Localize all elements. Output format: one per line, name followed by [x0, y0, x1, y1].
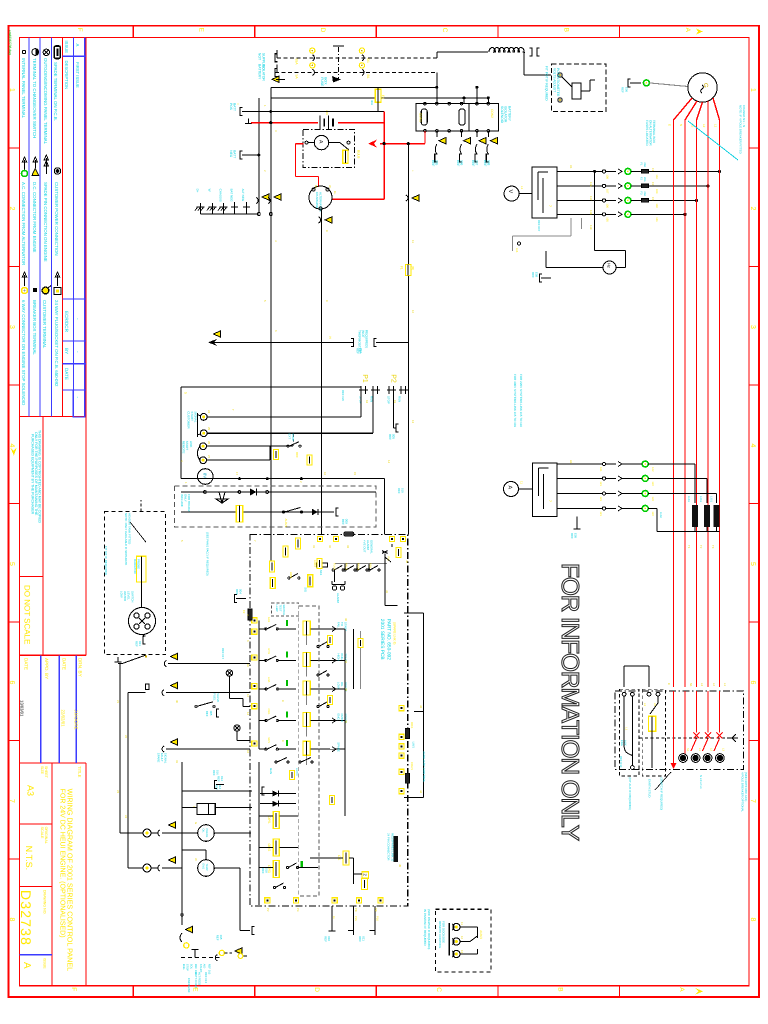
svg-text:T: T — [231, 409, 235, 411]
svg-text:OVER: OVER — [340, 714, 344, 722]
svg-text:101: 101 — [655, 217, 658, 222]
svg-text:T2: T2 — [699, 545, 703, 549]
breaker aux sub-box 1 internals — [622, 692, 626, 696]
svg-text:(SEE NOTE REF AC1): (SEE NOTE REF AC1) — [744, 772, 748, 801]
svg-text:REF: REF — [217, 776, 221, 782]
svg-text:7: 7 — [253, 540, 257, 542]
relay CON1 coil — [421, 109, 427, 125]
start aid dashed wire — [181, 957, 220, 959]
svg-text:24: 24 — [124, 815, 128, 819]
svg-text:FUEL: FUEL — [212, 693, 216, 701]
P1 pins — [359, 389, 368, 391]
ammeter circle — [504, 482, 519, 497]
svg-text:5: 5 — [263, 300, 267, 302]
svg-text:CUSTOMER POWER CONNECTION: CUSTOMER POWER CONNECTION — [54, 182, 59, 256]
svg-text:ON ALTERNATOR: ON ALTERNATOR — [649, 120, 653, 146]
battery isolator line 1 — [277, 57, 437, 59]
symbol terminal to changeover switch — [32, 49, 39, 56]
gray sense wire — [359, 631, 361, 672]
P1 wires down — [360, 394, 362, 417]
svg-text:A: A — [678, 987, 685, 992]
svg-text:D.C. CONNECTOR FROM ENGINE: D.C. CONNECTOR FROM ENGINE — [32, 182, 37, 252]
svg-text:F: F — [76, 28, 83, 32]
remote control terminals — [453, 923, 460, 930]
svg-text:33: 33 — [346, 545, 350, 549]
svg-text:REMOTE: REMOTE — [182, 441, 186, 454]
gray wire extension pcb — [359, 660, 361, 689]
thermostart supply wire — [213, 341, 354, 343]
svg-text:P2: P2 — [266, 908, 270, 912]
svg-text:CUSTOMER: CUSTOMER — [186, 411, 190, 429]
breaker phase studs — [680, 755, 686, 761]
svg-text:32: 32 — [328, 545, 332, 549]
svg-text:WIRING DIAGRAM OF 2001 SERIES: WIRING DIAGRAM OF 2001 SERIES CONTROL PA… — [65, 789, 74, 972]
svg-text:P16: P16 — [376, 916, 379, 921]
svg-text:TERMINAL BOX: TERMINAL BOX — [652, 120, 656, 143]
svg-text:L2: L2 — [702, 124, 706, 128]
svg-text:HT/1: HT/1 — [267, 648, 270, 654]
remote terminal common bar — [448, 923, 450, 956]
svg-text:L2: L2 — [710, 748, 713, 751]
svg-text:ENERGISE: ENERGISE — [187, 978, 191, 993]
svg-text:SWITCH: SWITCH — [282, 605, 285, 616]
svg-text:19: 19 — [393, 400, 397, 404]
svg-text:EXT: EXT — [287, 434, 291, 440]
voltmeter to selector wire — [519, 193, 532, 195]
svg-text:REF: REF — [531, 272, 535, 278]
svg-text:START: START — [344, 622, 348, 631]
sub-box 2 internals — [647, 692, 651, 696]
svg-text:D: D — [313, 987, 320, 992]
svg-text:(SEE PAN/PAC IF REQUIRED): (SEE PAN/PAC IF REQUIRED) — [427, 909, 431, 949]
isolator link dash-dot vertical — [337, 47, 339, 80]
red arrow to charge box — [368, 140, 377, 148]
PCB bottom edge pads — [265, 898, 270, 903]
charge box switch blade — [340, 143, 349, 150]
svg-text:004: 004 — [239, 589, 243, 594]
ammeter rows to CT drops — [648, 463, 695, 465]
svg-text:REF: REF — [205, 711, 209, 717]
svg-text:11: 11 — [411, 240, 415, 243]
fault row ENG. — [259, 720, 266, 722]
svg-text:ECR/DCR: ECR/DCR — [64, 311, 69, 333]
coil stubs below PCB row coils — [306, 635, 308, 645]
svg-text:E: E — [667, 683, 671, 685]
svg-text:117: 117 — [589, 196, 593, 201]
svg-text:E: E — [192, 987, 199, 992]
svg-text:OIL: OIL — [202, 829, 205, 834]
svg-text:START: START — [185, 441, 189, 451]
svg-text:Hz: Hz — [607, 263, 612, 268]
svg-text:N L3 L2 L1: N L3 L2 L1 — [699, 775, 703, 789]
svg-text:REF: REF — [215, 935, 219, 941]
svg-text:SWITCH: SWITCH — [130, 591, 134, 602]
aux box top row wire — [181, 491, 376, 493]
svg-text:SOLENOID: SOLENOID — [500, 106, 504, 124]
svg-text:POS: POS — [229, 103, 233, 110]
svg-text:D1: D1 — [366, 59, 370, 63]
wire down to oil sender — [119, 664, 121, 833]
svg-text:CON2: CON2 — [490, 109, 494, 118]
svg-text:11: 11 — [332, 916, 335, 919]
svg-text:18: 18 — [365, 400, 369, 404]
spade connectors below relays — [439, 138, 446, 144]
switch bottom terminal — [143, 635, 145, 637]
middle vertical wire pcb — [353, 629, 355, 689]
svg-text:PAN/1: PAN/1 — [356, 563, 359, 571]
svg-text:9: 9 — [281, 740, 285, 742]
svg-text:ALT FEED: ALT FEED — [198, 972, 202, 985]
svg-text:REF 013: REF 013 — [204, 972, 208, 983]
svg-text:L3: L3 — [700, 683, 704, 687]
man auto switches — [275, 761, 277, 763]
svg-text:+VE OUT: +VE OUT — [362, 540, 366, 553]
svg-text:BATT: BATT — [233, 103, 237, 111]
svg-text:HEADER TANK FITTED: HEADER TANK FITTED — [128, 513, 132, 544]
starter coil inductor — [489, 47, 524, 52]
fault row LOW — [259, 688, 266, 690]
breaker dash-dot box — [615, 691, 743, 769]
svg-text:P1: P1 — [361, 374, 368, 383]
svg-text:008: 008 — [487, 160, 491, 166]
terminal 2 wire — [207, 432, 373, 434]
svg-text:A: A — [21, 962, 32, 969]
spade pair on long vertical — [412, 195, 419, 201]
battery pos red down to charge junction — [383, 112, 385, 200]
svg-text:L2: L2 — [712, 683, 716, 687]
svg-text:11: 11 — [460, 922, 464, 925]
svg-text:010: 010 — [327, 936, 331, 941]
svg-text:ENG: ENG — [182, 964, 185, 970]
top bus wire 2 — [271, 97, 489, 99]
title block borders — [51, 763, 53, 986]
fuel solenoid component — [197, 804, 215, 815]
svg-text:L5: L5 — [653, 703, 656, 706]
PCB ref 004 bracket — [236, 598, 246, 600]
svg-text:121: 121 — [599, 467, 602, 472]
svg-text:P2/1: P2/1 — [368, 563, 371, 569]
svg-text:A3: A3 — [26, 785, 36, 796]
svg-text:POTENTIOMETER: POTENTIOMETER — [556, 68, 560, 97]
svg-text:FA/1: FA/1 — [267, 617, 270, 623]
svg-text:121: 121 — [599, 511, 602, 516]
svg-text:2001 SERIES PCB: 2001 SERIES PCB — [379, 619, 385, 660]
bottom bracket ref — [239, 868, 241, 931]
PCB bottom wires to ground — [331, 906, 333, 928]
volts adjust potentiometer box — [551, 64, 605, 112]
svg-text:43: 43 — [419, 705, 423, 709]
svg-text:015: 015 — [219, 935, 223, 940]
symbol 6 way connector on engine stop solenoid — [24, 275, 26, 286]
PCB left edge fuse — [248, 609, 252, 620]
svg-text:B+: B+ — [333, 191, 337, 195]
Z component — [362, 872, 369, 879]
spare fault row — [162, 746, 164, 752]
svg-text:F4: F4 — [381, 95, 385, 99]
symbol customer terminal — [42, 287, 49, 294]
svg-text:SIG: SIG — [304, 587, 308, 592]
svg-text:NOTE: ONLY AVAILABLE IF SEPARA: NOTE: ONLY AVAILABLE IF SEPARATE — [124, 513, 128, 565]
aux control resistors — [405, 729, 409, 739]
red wire junction to CON1 — [380, 143, 425, 145]
svg-text:OUTGOING/INCOMING PANEL TERMIN: OUTGOING/INCOMING PANEL TERMINAL — [43, 58, 48, 145]
svg-text:REF: REF — [431, 160, 435, 166]
svg-text:L3: L3 — [722, 748, 725, 751]
svg-text:1: 1 — [184, 482, 188, 484]
svg-text:REF: REF — [295, 452, 299, 458]
voltmeter circle — [504, 186, 519, 201]
svg-text:6: 6 — [749, 681, 756, 685]
svg-text:(NOT: (NOT — [361, 330, 365, 338]
wires bus to CON relays — [436, 87, 438, 103]
svg-text:20A: 20A — [643, 191, 646, 196]
copyright cell borders — [20, 654, 87, 656]
svg-text:TEST: TEST — [279, 605, 282, 612]
name and date field borders — [20, 762, 87, 764]
svg-text:L3: L3 — [643, 703, 646, 706]
svg-text:13/03/01: 13/03/01 — [20, 700, 25, 717]
svg-text:7: 7 — [548, 205, 552, 207]
relay box CON1 — [416, 104, 469, 131]
top bus wire 1 — [271, 86, 437, 88]
svg-text:3: 3 — [8, 325, 15, 329]
svg-text:31: 31 — [175, 760, 179, 764]
svg-text:FAIL: FAIL — [337, 622, 341, 628]
breaker N feeder to stud — [684, 691, 686, 753]
centre arrow marks on borders — [696, 28, 704, 34]
svg-text:BATT CHGR: BATT CHGR — [194, 972, 198, 988]
svg-text:007: 007 — [475, 160, 479, 166]
hz ref bracket — [541, 277, 551, 279]
lamp test dashed cell — [272, 603, 299, 616]
svg-text:5: 5 — [749, 562, 756, 566]
svg-text:F3: F3 — [640, 191, 643, 195]
svg-text:E09: E09 — [574, 533, 578, 539]
svg-text:12: 12 — [246, 694, 250, 698]
svg-text:+: + — [411, 170, 415, 172]
svg-text:REF: REF — [621, 87, 625, 93]
svg-text:A: A — [507, 486, 513, 490]
svg-text:SIGNAL: SIGNAL — [164, 753, 168, 764]
svg-text:006: 006 — [460, 160, 464, 166]
svg-text:RE2/SPARES LINK 12: RE2/SPARES LINK 12 — [390, 833, 394, 862]
charge ammeter dash-dot box — [303, 130, 355, 168]
svg-text:FOR INFORMATION ONLY: FOR INFORMATION ONLY — [556, 563, 583, 841]
svg-text:122: 122 — [651, 511, 654, 516]
resistor right — [396, 548, 401, 558]
symbol DC connector from engine — [34, 160, 36, 168]
hz meter loop — [595, 250, 626, 252]
svg-text:IN PAN/PAC IF REQUIRED: IN PAN/PAC IF REQUIRED — [423, 909, 427, 947]
voltmeter selector box — [532, 167, 557, 218]
svg-text:021: 021 — [138, 641, 142, 646]
svg-text:004: 004 — [359, 348, 363, 353]
diode in aux row — [250, 489, 257, 496]
svg-text:2: 2 — [749, 207, 756, 211]
svg-text:6 WAY CONNECTOR ON ENGINE STOP: 6 WAY CONNECTOR ON ENGINE STOP SOLENOID — [21, 300, 26, 405]
vertical links between rows — [344, 629, 346, 749]
svg-text:PAL/1: PAL/1 — [344, 563, 347, 570]
svg-text:OIL: OIL — [340, 682, 344, 687]
svg-text:16: 16 — [323, 472, 327, 476]
breaker E feeder ends at box bottom — [673, 691, 675, 765]
svg-text:SPARE: SPARE — [337, 742, 341, 752]
fuse F4 — [375, 89, 381, 102]
terminal 3 wire to ext stop switch — [207, 445, 294, 447]
svg-text:N1: N1 — [689, 683, 693, 687]
svg-text:TERMINAL TO CHANGEOVER SWITCH: TERMINAL TO CHANGEOVER SWITCH — [32, 58, 37, 138]
svg-text:W: W — [207, 189, 211, 192]
svg-text:NOTE: IF 4 POLE BREAKER FITTED: NOTE: IF 4 POLE BREAKER FITTED — [739, 105, 743, 154]
svg-text:116: 116 — [589, 182, 593, 187]
remote control dashed box — [436, 909, 492, 972]
svg-text:E08: E08 — [535, 272, 539, 278]
relay pins top and bottom — [424, 102, 427, 105]
svg-text:FUSES LOCATED: FUSES LOCATED — [645, 120, 649, 146]
svg-text:L1: L1 — [714, 124, 718, 128]
diode 2 in aux box — [312, 509, 318, 515]
svg-text:AUX/1: AUX/1 — [284, 519, 288, 528]
radiator probe dashed box — [105, 512, 166, 655]
svg-text:3: 3 — [274, 130, 278, 132]
svg-text:ISSUE: ISSUE — [64, 41, 69, 54]
svg-text:REF 017: REF 017 — [221, 648, 225, 659]
svg-text:37: 37 — [344, 660, 348, 664]
P2 stop wire to ref bracket — [393, 394, 395, 428]
terminal pos batt bracket — [240, 108, 243, 116]
symbol spade terminal on PCB — [54, 46, 60, 59]
PCB bottom wires to brackets — [352, 906, 354, 926]
isolator pole circles — [312, 55, 314, 61]
switch VA/1 mid — [195, 705, 197, 707]
svg-text:B: B — [562, 28, 569, 32]
isolator bracket stubs — [276, 50, 278, 58]
svg-text:(SWITCH IF REQUIRED): (SWITCH IF REQUIRED) — [659, 778, 663, 811]
sub-box connection hat wires — [623, 666, 625, 687]
svg-text:2: 2 — [8, 207, 15, 211]
svg-text:AID: AID — [203, 964, 206, 969]
svg-text:FOR 650-092: FOR 650-092 — [187, 494, 191, 512]
svg-text:6: 6 — [274, 330, 278, 332]
svg-text:(M): (M) — [411, 266, 415, 270]
spade pairs on bus verticals — [262, 194, 269, 200]
svg-text:PROBE: PROBE — [137, 559, 141, 569]
svg-text:A1: A1 — [569, 460, 573, 464]
svg-text:7: 7 — [548, 500, 552, 502]
svg-text:13: 13 — [411, 420, 415, 424]
low water level switch circle — [129, 608, 156, 635]
svg-text:FIT KIT IF REQUIRED: FIT KIT IF REQUIRED — [104, 546, 108, 575]
svg-text:E: E — [198, 28, 205, 33]
svg-text:ENG: ENG — [620, 740, 623, 746]
svg-text:ALARM: ALARM — [336, 593, 340, 604]
aux row terminal bracket — [330, 511, 334, 513]
svg-text:DRN. BY: DRN. BY — [78, 658, 83, 677]
svg-text:SIZE: SIZE — [40, 766, 44, 775]
terminal 4 wire — [207, 459, 271, 461]
svg-text:55A: 55A — [294, 59, 298, 66]
svg-text:CON1: CON1 — [419, 113, 423, 122]
svg-text:6: 6 — [246, 640, 250, 642]
ground cluster wire — [201, 213, 259, 215]
terminal neg batt bracket — [240, 151, 243, 159]
svg-text:A.C. CONNECTION FROM ALTERNATO: A.C. CONNECTION FROM ALTERNATOR — [21, 182, 26, 265]
svg-text:RADIATOR: RADIATOR — [133, 559, 137, 574]
radiator probe component — [137, 556, 146, 582]
breaker trip linkage dashed — [639, 737, 727, 739]
svg-text:B: B — [556, 987, 563, 991]
svg-text:STOP: STOP — [291, 434, 295, 442]
diode pair rows — [260, 793, 296, 795]
svg-text:WATER: WATER — [123, 591, 127, 601]
ammeter selector box — [532, 463, 556, 516]
CR/1 switch — [273, 886, 275, 888]
svg-text:108: 108 — [606, 174, 609, 179]
svg-text:121: 121 — [599, 497, 602, 502]
pcb mid vertical right bus 2 — [344, 689, 346, 749]
svg-text:T1: T1 — [687, 545, 691, 549]
svg-text:104: 104 — [655, 174, 658, 179]
svg-text:FOR 220V SYSTEMS LINK 115 TO 1: FOR 220V SYSTEMS LINK 115 TO 110 — [519, 374, 523, 427]
svg-text:DR/1: DR/1 — [410, 722, 414, 729]
svg-text:AR/3: AR/3 — [289, 572, 293, 579]
svg-text:102: 102 — [655, 203, 658, 208]
wire isolator to coil — [436, 52, 438, 58]
aux control wires bracket — [404, 612, 424, 614]
pcb bottom section row wires — [259, 815, 273, 817]
svg-text:LW/1: LW/1 — [412, 742, 416, 749]
terminal 1 wire — [207, 416, 361, 418]
warning lamp in charge box — [343, 150, 348, 163]
svg-text:AUX: AUX — [624, 740, 627, 746]
probe to switch wire — [140, 582, 142, 608]
svg-text:12S1: 12S1 — [699, 496, 702, 503]
isolator arrow bottom — [332, 76, 341, 83]
PCB left edge pads — [252, 618, 257, 623]
spade pair on W wire — [325, 217, 332, 223]
P2 pins — [387, 389, 396, 391]
svg-text:F1: F1 — [640, 162, 643, 166]
solenoid feed wires — [182, 806, 197, 808]
svg-text:L1: L1 — [625, 727, 628, 730]
svg-text:45: 45 — [398, 864, 402, 868]
ref 014 bracket top of gauges — [216, 784, 224, 786]
symbol AC connection from alternator — [24, 160, 26, 170]
svg-text:41: 41 — [385, 590, 389, 594]
svg-text:VOLTS ADJUST: VOLTS ADJUST — [553, 68, 557, 92]
svg-text:ISSUE: ISSUE — [43, 958, 47, 969]
svg-text:4: 4 — [8, 444, 15, 448]
water temp gauge circle — [198, 860, 215, 877]
svg-text:STOP: STOP — [186, 964, 189, 971]
battery cells symbol — [319, 116, 321, 130]
down arrow symbol — [216, 492, 228, 503]
svg-text:SPADE TERMINAL ON P.C.B.: SPADE TERMINAL ON P.C.B. — [53, 62, 58, 121]
relay CON2 coil — [459, 109, 465, 125]
svg-text:24 PIN CONNECTOR: 24 PIN CONNECTOR — [387, 833, 391, 860]
svg-text:23: 23 — [116, 790, 120, 794]
svg-text:+: + — [236, 103, 240, 105]
breaker aux dashed sub-box 2 — [642, 689, 665, 776]
svg-text:DESCRIPTION: DESCRIPTION — [64, 61, 69, 90]
svg-text:BY: BY — [64, 348, 69, 354]
svg-text:NOT: NOT — [258, 53, 262, 60]
svg-text:REQUIRED): REQUIRED) — [365, 330, 369, 348]
AUX/1 switch — [282, 511, 284, 513]
svg-text:ENG: ENG — [202, 864, 205, 870]
svg-text:1: 1 — [8, 88, 15, 92]
aux control pads column — [399, 706, 404, 711]
